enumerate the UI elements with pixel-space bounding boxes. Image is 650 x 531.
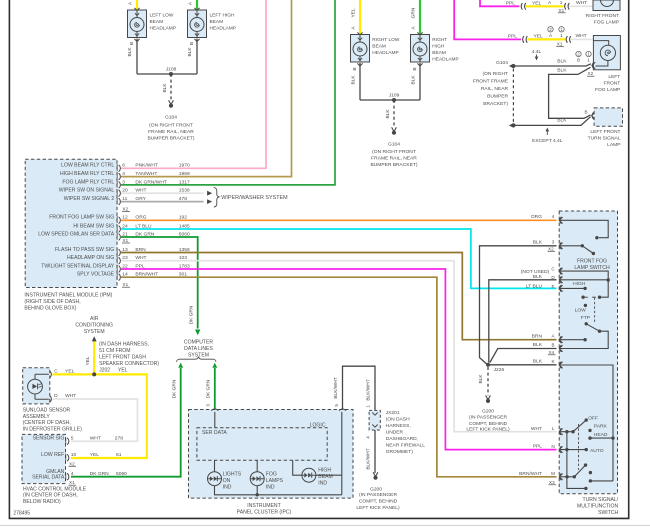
pin D dimmer: [533, 274, 563, 283]
IPM pin 4 TAN/WHT 1969 row: [60, 171, 190, 180]
svg-text:51 CM FROM: 51 CM FROM: [99, 348, 130, 354]
label OFF: [588, 415, 598, 421]
svg-text:MULTIFUNCTION: MULTIFUNCTION: [577, 503, 619, 509]
wire BLK/WHT jx201 to G200: [366, 430, 376, 473]
svg-text:GRN: GRN: [411, 7, 417, 18]
svg-text:(ON RIGHT: (ON RIGHT: [482, 71, 508, 77]
svg-text:LOW: LOW: [575, 308, 587, 314]
svg-text:FRAME RAIL, NEAR: FRAME RAIL, NEAR: [148, 129, 194, 135]
wire YEL sunload sensor to hvac low ref: [53, 374, 147, 458]
connector X1 left fog: [556, 36, 571, 47]
wire YEL feed left low beam headlamp: [136, 0, 138, 10]
contact AUTO: [559, 448, 603, 454]
svg-text:LIGHTS: LIGHTS: [223, 472, 242, 478]
wire IPC pin5 internal: [341, 412, 343, 495]
svg-text:TURN SIGNAL: TURN SIGNAL: [588, 136, 621, 142]
svg-text:G104: G104: [388, 142, 400, 148]
svg-text:AUTO: AUTO: [590, 448, 604, 454]
svg-text:HIGH: HIGH: [318, 468, 331, 474]
headlamp switch L blade: [559, 418, 588, 433]
svg-text:UNDER: UNDER: [386, 430, 404, 436]
svg-text:L: L: [552, 426, 555, 431]
svg-text:FRAME RAIL, NEAR: FRAME RAIL, NEAR: [371, 156, 417, 162]
wire BLK dimmer pinD to J226: [489, 280, 557, 363]
ground G104 right headlamps: [388, 127, 400, 147]
junction dot fog LED rail: [256, 493, 259, 496]
svg-text:N: N: [551, 444, 554, 449]
svg-text:BLK: BLK: [557, 118, 567, 124]
svg-text:DASHBOARD,: DASHBOARD,: [386, 436, 418, 442]
ground G104 fog 4.4L: [496, 60, 515, 68]
svg-text:HEADLAMP: HEADLAMP: [210, 25, 236, 31]
svg-text:G104: G104: [165, 115, 177, 121]
pin E dimmer: [526, 283, 563, 292]
svg-text:BUMPER: BUMPER: [487, 93, 508, 99]
wire BRN 1356 flash to pass: [121, 253, 557, 340]
svg-text:BLK: BLK: [187, 47, 193, 57]
pin letters left fog ground: [577, 58, 590, 63]
svg-text:B: B: [129, 42, 135, 45]
headlamp switch M blade: [559, 463, 587, 478]
svg-text:M: M: [551, 471, 555, 476]
pin B right low beam: [352, 63, 363, 70]
pin C sunload: [50, 368, 75, 377]
svg-text:CONDITIONING: CONDITIONING: [75, 322, 113, 328]
wire TAN/WHT 1969 high beam relay ctrl: [121, 0, 292, 177]
svg-text:X2: X2: [123, 207, 129, 212]
svg-text:BEAM: BEAM: [372, 43, 386, 49]
pin B right high beam: [412, 63, 423, 70]
svg-text:YEL: YEL: [118, 368, 128, 374]
wire BLK dashed J226 to G200: [478, 367, 488, 396]
wire GRY 478 wiper sw signal 2: [121, 201, 204, 203]
svg-text:X1: X1: [123, 282, 129, 287]
svg-text:LOW REF: LOW REF: [41, 452, 64, 458]
IPM pin 20 WHT 1538 row: [59, 188, 190, 197]
svg-text:PPL: PPL: [508, 33, 518, 39]
wire BLK dashed to G104 right: [385, 100, 394, 127]
pin A left low beam: [128, 1, 134, 5]
svg-text:G200: G200: [370, 486, 382, 492]
svg-text:X2: X2: [588, 71, 594, 76]
note G104 location left: [147, 123, 194, 142]
lamp left high beam headlamp: [188, 8, 236, 38]
pin D sunload: [50, 393, 77, 402]
IPM pin 24 LT BLU 1485 row: [73, 223, 190, 232]
lamp left front turn signal: [588, 108, 623, 148]
svg-text:5: 5: [71, 436, 74, 442]
svg-text:SYSTEM: SYSTEM: [84, 329, 105, 335]
dimmer internal C to D: [559, 271, 608, 280]
svg-text:1: 1: [560, 0, 563, 5]
svg-text:LOGIC: LOGIC: [310, 423, 326, 429]
pin A left high beam: [188, 1, 194, 5]
svg-text:B: B: [352, 67, 358, 70]
FTP blade: [585, 322, 602, 333]
svg-text:HEADLAMP: HEADLAMP: [432, 56, 458, 62]
module HVAC box: [22, 434, 66, 483]
wire LT BLU 1485 hi beam sw: [121, 229, 557, 288]
ftp internal A: [559, 338, 587, 341]
HVAC X2 label: [69, 461, 77, 466]
svg-text:IND: IND: [223, 485, 232, 491]
svg-text:WHT: WHT: [576, 33, 587, 39]
wire PPL feed right front fog lamp: [480, 0, 520, 6]
wire BLK turn signal to G104: [515, 117, 591, 126]
svg-text:B: B: [577, 58, 580, 63]
note 4.4L: [532, 49, 542, 61]
X3 label: [549, 480, 557, 485]
arrow to AC system: [92, 336, 97, 341]
svg-text:BELOW RADIO): BELOW RADIO): [23, 499, 61, 505]
svg-text:TURN SIGNAL/: TURN SIGNAL/: [583, 497, 619, 503]
IPM connector X2 label: [122, 207, 130, 212]
svg-text:HEADLAMP: HEADLAMP: [372, 50, 398, 56]
svg-text:WIPER SW ON SIGNAL: WIPER SW ON SIGNAL: [59, 188, 115, 194]
svg-text:BLK: BLK: [127, 47, 133, 57]
wire PNK/WHT 1970 low beam relay ctrl: [121, 0, 266, 168]
brace data lines: [177, 357, 217, 362]
svg-text:FTP: FTP: [581, 315, 590, 321]
svg-text:J108: J108: [166, 67, 177, 73]
connector X1 right fog: [558, 3, 569, 13]
svg-text:BLK: BLK: [351, 75, 357, 85]
note IPC label: [237, 503, 292, 515]
svg-text:BLK/WHT: BLK/WHT: [366, 379, 372, 400]
lamp right low beam headlamp: [351, 32, 400, 62]
wire WHT into left front fog lamp: [571, 33, 593, 40]
svg-text:HIGH: HIGH: [432, 43, 445, 49]
svg-text:DK GRN: DK GRN: [172, 379, 178, 398]
svg-text:3: 3: [206, 404, 211, 407]
svg-text:DK GRN: DK GRN: [206, 379, 212, 398]
svg-text:ASSEMBLY: ASSEMBLY: [23, 414, 51, 420]
pin 4 jx201: [366, 436, 371, 439]
LED lights on indicator: [208, 472, 242, 491]
svg-text:SWITCH: SWITCH: [598, 510, 618, 516]
svg-text:RIGHT LOW: RIGHT LOW: [372, 37, 400, 43]
arrow wiper wht: [207, 191, 212, 196]
svg-text:LAMP SWITCH: LAMP SWITCH: [574, 265, 610, 271]
wire PPL 1783 twilight sentinel: [121, 269, 557, 450]
wire WHT 103 headlamp on: [121, 261, 557, 432]
svg-text:X3: X3: [549, 480, 555, 485]
svg-text:FOG LAMP: FOG LAMP: [594, 20, 619, 26]
svg-text:(ON RIGHT FRONT: (ON RIGHT FRONT: [372, 149, 416, 155]
svg-text:BUMPER BRACKET): BUMPER BRACKET): [370, 162, 417, 168]
note G104 location right: [370, 149, 417, 168]
IPM pin 13 BRN 1356 row: [55, 247, 190, 256]
svg-text:G200: G200: [482, 408, 494, 414]
wire logic to lights-on LED: [214, 460, 216, 472]
svg-text:BLK: BLK: [533, 342, 543, 348]
IPM pin 14 BRN/WHT 301 row: [77, 272, 187, 281]
svg-text:WHT: WHT: [65, 393, 76, 399]
wire GRN feed right high beam headlamp: [411, 0, 421, 35]
svg-text:BRN: BRN: [532, 333, 543, 339]
svg-text:FOG: FOG: [266, 472, 277, 478]
svg-text:(CENTER OF DASH,: (CENTER OF DASH,: [23, 420, 71, 426]
pin A right fog inline: [548, 0, 563, 5]
IPM pin 3 DK GRN/WHT 1317 row: [62, 179, 190, 188]
brace wiper/washer: [214, 188, 288, 207]
svg-text:(NOT USED): (NOT USED): [521, 269, 550, 275]
svg-text:(RIGHT SIDE OF DASH,: (RIGHT SIDE OF DASH,: [24, 299, 80, 305]
wire BLK joining right headlamps: [360, 99, 420, 101]
svg-text:BEAM: BEAM: [432, 50, 446, 56]
svg-text:WHT: WHT: [90, 436, 101, 442]
svg-text:BRACKET): BRACKET): [483, 101, 508, 107]
IPM pin 6 PNK/WHT 1970 row: [61, 163, 190, 172]
svg-text:LEFT KICK PANEL): LEFT KICK PANEL): [466, 427, 510, 433]
svg-text:B: B: [551, 343, 554, 348]
wire YEL fuse link left fog: [528, 33, 566, 39]
contact PARK: [588, 424, 607, 432]
svg-text:HEADLAMP: HEADLAMP: [150, 25, 176, 31]
svg-text:SUNLOAD SENSOR: SUNLOAD SENSOR: [23, 407, 71, 413]
label turn signal multifunction switch: [577, 497, 619, 516]
lamp right high beam headlamp: [411, 32, 459, 62]
splice J226: [486, 363, 504, 373]
svg-text:YEL: YEL: [65, 368, 75, 374]
wire BLK fog lamp pin1 to G104: [515, 58, 591, 66]
note EXCEPT 4.4L: [532, 128, 563, 144]
svg-text:SENSOR SIG: SENSOR SIG: [33, 436, 65, 442]
svg-text:5060: 5060: [116, 471, 127, 477]
wire BRN/WHT 301 supply voltage: [121, 277, 557, 477]
svg-text:FRONT FOG LAMP SW SIG: FRONT FOG LAMP SW SIG: [49, 215, 114, 221]
module IPM box: [25, 159, 117, 287]
note G200 left location: [356, 492, 400, 511]
svg-text:EXCEPT 4.4L: EXCEPT 4.4L: [532, 138, 563, 144]
wire GRN feed left high beam headlamp: [196, 0, 198, 10]
IPM pin 21 DK GRN 5060 row: [38, 231, 190, 240]
svg-text:ON: ON: [223, 478, 231, 484]
svg-text:4: 4: [71, 471, 74, 477]
svg-text:BLK: BLK: [533, 274, 543, 280]
IPM pin 23 WHT 103 row: [67, 255, 187, 264]
pin 5 label BLK/WHT: [0, 0, 1, 1]
svg-text:X1: X1: [69, 480, 75, 485]
svg-text:B: B: [584, 110, 587, 115]
wire YEL feed right low beam headlamp: [351, 0, 361, 35]
svg-text:BUMPER BRACKET): BUMPER BRACKET): [147, 136, 194, 142]
svg-text:BLK: BLK: [557, 67, 567, 73]
svg-text:(IN CENTER OF DASH,: (IN CENTER OF DASH,: [23, 493, 78, 499]
svg-text:278495: 278495: [13, 511, 30, 517]
HVAC pin 5 sensor sig row: [33, 436, 124, 445]
svg-text:SERIAL DATA: SERIAL DATA: [32, 474, 65, 480]
connector X2 left fog: [587, 62, 595, 76]
svg-text:X1: X1: [557, 42, 563, 47]
splice J109: [389, 93, 400, 103]
svg-text:PANEL CLUSTER (IPC): PANEL CLUSTER (IPC): [237, 509, 292, 515]
svg-text:X4: X4: [549, 350, 555, 355]
label FTP: [581, 315, 590, 321]
svg-text:DK GRN: DK GRN: [188, 305, 194, 324]
svg-text:RAIL, NEAR: RAIL, NEAR: [481, 86, 509, 92]
svg-text:IND: IND: [318, 481, 327, 487]
wire WHT into right front fog lamp: [570, 0, 594, 6]
svg-text:4: 4: [366, 436, 371, 439]
svg-text:FOG LAMP RLY CTRL: FOG LAMP RLY CTRL: [62, 179, 114, 185]
ground G104 except 4.4L: [509, 123, 516, 127]
IPM pin 11 GRY 478 row: [64, 196, 188, 205]
svg-text:WIPER/WASHER SYSTEM: WIPER/WASHER SYSTEM: [221, 195, 288, 201]
IPM pin 22 PPL 1783 row: [41, 263, 190, 272]
switch bus L to N: [566, 432, 568, 450]
svg-text:HIGH: HIGH: [573, 281, 586, 287]
svg-text:PARK: PARK: [594, 424, 608, 430]
connector row2 left half: [523, 36, 528, 43]
wire DK GRN 5060 gmlan from IPM: [121, 237, 198, 329]
module IPC logic box: [197, 423, 327, 461]
pin B left low beam: [129, 39, 140, 45]
dimmer contacts: [581, 280, 608, 307]
wire BLK/WHT ipc to jx201: [333, 366, 375, 410]
svg-text:LAMP: LAMP: [607, 142, 620, 148]
ground G200 right: [482, 396, 494, 415]
svg-text:IN DEFROSTER GRILLE): IN DEFROSTER GRILLE): [23, 427, 82, 433]
svg-text:SPEAKER CONNECTOR): SPEAKER CONNECTOR): [99, 361, 159, 367]
wire BLK right low beam ground: [351, 63, 361, 100]
wire BLK left low beam ground: [127, 39, 137, 75]
fog switch blade: [559, 244, 595, 255]
svg-text:B: B: [412, 67, 418, 70]
svg-text:JX201: JX201: [386, 410, 400, 416]
svg-text:BLK: BLK: [557, 58, 567, 64]
pin 1 jx201: [366, 405, 371, 408]
pin C not used: [521, 267, 563, 275]
svg-text:BLK: BLK: [533, 359, 543, 365]
svg-text:LEFT: LEFT: [608, 74, 620, 80]
svg-text:FRONT: FRONT: [603, 80, 620, 86]
wire ORG 192 front fog sw: [121, 219, 557, 221]
dimmer blade E: [559, 287, 587, 290]
svg-text:(ON RIGHT FRONT: (ON RIGHT FRONT: [149, 123, 193, 129]
svg-text:COMPT, BEHIND: COMPT, BEHIND: [469, 421, 508, 427]
wire BLK headlamp switch pinB to J226: [490, 349, 557, 363]
module turn signal multifunction switch box: [559, 211, 617, 494]
note HVAC location: [23, 486, 87, 505]
wire BLK dashed to G104 left: [162, 74, 171, 100]
svg-text:FRONT FRAME: FRONT FRAME: [473, 78, 509, 84]
page number: [13, 511, 30, 517]
svg-text:B: B: [189, 42, 195, 45]
svg-text:(IN PASSENGER: (IN PASSENGER: [469, 415, 507, 421]
svg-text:OFF: OFF: [588, 415, 598, 421]
svg-text:INSTRUMENT PANEL MODULE (IPM): INSTRUMENT PANEL MODULE (IPM): [24, 293, 112, 299]
svg-text:FRONT FOG: FRONT FOG: [577, 259, 607, 265]
svg-text:(IN PASSENGER: (IN PASSENGER: [359, 492, 397, 498]
IPM connector X1 label mid: [122, 238, 130, 243]
wire BLK fog switch pin3 to J226: [480, 246, 557, 364]
svg-text:GROMMET): GROMMET): [386, 449, 414, 455]
contact M upper: [589, 471, 592, 474]
svg-text:TWILIGHT SENTINAL DISPLAY: TWILIGHT SENTINAL DISPLAY: [41, 263, 115, 269]
wire logic to high-beam LED: [293, 460, 302, 475]
HVAC pin 4 gmlan row: [32, 469, 127, 480]
splice J202: [92, 372, 96, 376]
note computer data lines system: [184, 339, 214, 358]
pin L: [531, 426, 563, 435]
wire BLK fog lamp pinB loop: [549, 67, 591, 118]
IPC pin 3 connector: [206, 404, 219, 411]
label HIGH: [573, 281, 586, 287]
svg-text:YEL: YEL: [85, 356, 91, 365]
svg-text:1: 1: [587, 58, 590, 63]
wire PPL feed left front fog lamp: [454, 0, 521, 39]
lamp right front fog lamp (cut at top): [586, 0, 620, 26]
switch internal K rail: [559, 365, 613, 481]
svg-text:HI BEAM SW SIG: HI BEAM SW SIG: [73, 223, 114, 229]
svg-text:YEL: YEL: [534, 33, 544, 39]
svg-text:X2: X2: [69, 461, 75, 466]
svg-text:YEL: YEL: [351, 8, 357, 17]
svg-text:(IN DASH HARNESS,: (IN DASH HARNESS,: [99, 342, 149, 348]
svg-text:BLK: BLK: [162, 83, 168, 93]
svg-text:PPL: PPL: [506, 0, 516, 6]
wire YEL fuse link right fog: [526, 0, 564, 6]
svg-text:LEFT FRONT: LEFT FRONT: [590, 129, 620, 135]
svg-text:X1: X1: [559, 8, 565, 13]
wire LED ground rail: [215, 475, 342, 495]
svg-text:WHT: WHT: [576, 0, 587, 6]
svg-text:RIGHT: RIGHT: [432, 37, 447, 43]
svg-text:BEAM: BEAM: [210, 19, 224, 25]
svg-text:SER DATA: SER DATA: [202, 430, 227, 436]
wire BLK joining left headlamps: [137, 73, 197, 75]
svg-text:PPL: PPL: [533, 444, 543, 450]
svg-text:LEFT KICK PANEL): LEFT KICK PANEL): [356, 505, 400, 511]
ground G200 left: [370, 472, 382, 492]
lamp left low beam headlamp: [128, 8, 176, 38]
pin M: [519, 471, 562, 480]
dimmer mechanical link: [594, 298, 596, 323]
wire WHT sunload sensor to hvac sensor sig: [53, 399, 138, 441]
svg-text:X2: X2: [548, 246, 554, 251]
wire DK GRN/WHT 1317 fog lamp relay ctrl: [121, 0, 335, 185]
label front fog lamp switch: [574, 259, 610, 272]
contact HEAD: [588, 432, 614, 440]
svg-text:FLASH TO PASS SW SIG: FLASH TO PASS SW SIG: [55, 247, 114, 253]
svg-text:HARNESS,: HARNESS,: [386, 423, 411, 429]
svg-text:C: C: [54, 368, 58, 374]
note sunload location: [23, 407, 82, 432]
svg-text:5: 5: [334, 404, 339, 407]
headlamp switch mechanical link: [578, 424, 580, 470]
pin A left fog inline: [549, 33, 563, 38]
pin A ftp: [532, 333, 563, 343]
svg-text:HIGH BEAM RLY CTRL: HIGH BEAM RLY CTRL: [60, 171, 114, 177]
svg-text:SPLY VOLTAGE: SPLY VOLTAGE: [77, 272, 115, 278]
wire WHT 1538 wiper sw on: [121, 192, 204, 194]
svg-text:BLK: BLK: [478, 374, 484, 384]
arrow dk grn to data lines: [195, 329, 200, 335]
LED fog lamps indicator: [250, 472, 283, 491]
svg-text:BLK/WHT: BLK/WHT: [366, 448, 372, 469]
ground G104 left headlamps: [165, 100, 177, 120]
pin B turn signal lamp: [584, 110, 594, 120]
svg-text:1: 1: [366, 405, 371, 408]
svg-text:DK GRN: DK GRN: [90, 471, 109, 477]
svg-text:BRN/WHT: BRN/WHT: [519, 471, 542, 477]
X2 label fog switch: [548, 246, 556, 251]
pin B left high beam: [189, 39, 200, 45]
pin 4 fog switch: [531, 214, 563, 224]
dashed link between G104 dots: [512, 69, 514, 124]
svg-text:FOG LAMP: FOG LAMP: [595, 87, 620, 93]
